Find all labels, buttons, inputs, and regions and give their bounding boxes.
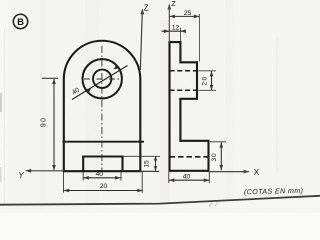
dim 15 bottom extension: [140, 170, 159, 172]
dim 25 line: [169, 15, 199, 17]
dim 25 arrow right: [194, 15, 199, 19]
dim 25 arrow left: [170, 15, 175, 19]
left edge smudge 2: [0, 167, 2, 182]
dim 40 notch extension left: [82, 172, 84, 181]
dim 80 arrow left: [64, 189, 69, 193]
dim 40 notch line: [83, 177, 121, 179]
side view outline: [170, 42, 209, 171]
dim 90 line: [53, 79, 55, 170]
Y axis arrow: [25, 169, 31, 173]
dim 80 arrow right: [137, 189, 142, 193]
inner circle (hole dia 20): [93, 70, 111, 88]
scan bottom edge: [0, 196, 320, 213]
dim 40 notch arrow left: [83, 176, 88, 180]
leader arrow lower-left: [85, 88, 91, 93]
dim 20 arrow bottom: [210, 85, 214, 90]
dim 40 foot extension left: [168, 172, 170, 183]
front Z axis: [140, 10, 142, 71]
dim 15 line: [155, 156, 157, 171]
side Z arrow: [167, 4, 171, 10]
dim 30 arrow bottom: [220, 165, 224, 170]
dim 40 notch arrow right: [115, 176, 120, 180]
dim 12 arrow left outside: [164, 29, 169, 33]
dim 40 foot line: [169, 179, 210, 181]
side Z axis: [168, 5, 170, 42]
dim 15 arrow bottom: [154, 166, 157, 171]
dim 40 foot extension right: [208, 172, 210, 183]
dim 12 right extension: [180, 28, 182, 42]
leader arrow upper-right: [114, 65, 119, 70]
dim 30 line: [220, 142, 222, 170]
horizontal center line: [84, 78, 121, 80]
circled B label: [13, 14, 27, 28]
hidden notch line in foot: [170, 156, 209, 158]
X axis arrow: [244, 170, 250, 174]
dim 90 extension tick: [42, 77, 58, 79]
front view notch: [83, 157, 122, 172]
dim 25 right extension: [198, 14, 200, 62]
front view base top line: [63, 141, 144, 143]
dim 12 line: [162, 30, 184, 32]
stray slash marks: [209, 202, 218, 206]
front Z arrow: [140, 9, 144, 15]
dim 20 line: [211, 71, 213, 90]
scan noise overlay: [0, 0, 1, 1]
dim 20 arrow top: [210, 71, 214, 76]
dim 90 arrow top: [52, 79, 56, 84]
dim 15 arrow top: [154, 156, 157, 161]
hidden hole line bottom: [170, 89, 198, 91]
outer circle (boss dia 40): [83, 59, 122, 98]
faint paper streaks: [85, 0, 99, 213]
front view outline: [64, 41, 141, 171]
paper crease line: [276, 38, 278, 172]
hidden hole line top: [170, 70, 198, 72]
left paper edge faint line: [4, 30, 6, 205]
dim 80 extension left: [63, 172, 65, 193]
left edge smudge 1: [0, 93, 2, 112]
dim 20 hole bottom extension: [199, 89, 217, 91]
dim 40 foot arrow right: [204, 178, 209, 182]
dim 40 foot arrow left: [169, 178, 174, 182]
vertical center line: [101, 46, 103, 172]
dim 15 top extension: [123, 155, 160, 157]
dim 80 extension right: [141, 172, 143, 193]
Y axis: [26, 170, 64, 172]
X axis: [209, 171, 249, 173]
dim 20 hole top extension: [199, 70, 217, 72]
dim 40 notch extension right: [120, 172, 122, 181]
dim 90 arrow bottom: [52, 165, 56, 170]
dim 30 arrow top: [220, 142, 224, 147]
dim 12 arrow right outside: [181, 29, 186, 33]
dim 30 top extension: [210, 141, 226, 143]
dim 80 line: [63, 190, 143, 192]
diameter leader line: [72, 66, 128, 100]
